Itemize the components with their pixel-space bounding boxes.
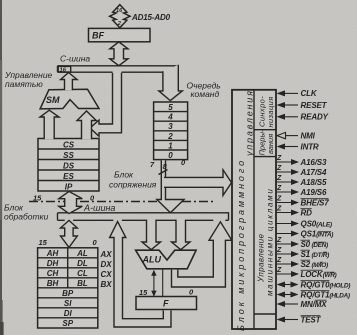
svg-text:Блок микропрограммного: Блок микропрограммного [236, 158, 246, 331]
segment register names [63, 141, 75, 192]
svg-text:Блок: Блок [114, 170, 134, 180]
width slash 8 [159, 170, 168, 175]
svg-text:NMI: NMI [301, 131, 316, 140]
wire queue to microprogram control (hollow arrow right) [164, 170, 232, 196]
pin TEST [277, 315, 322, 324]
svg-text:DX: DX [101, 260, 113, 269]
bus AD15-AD0 bidirectional symbol [110, 5, 130, 28]
pin A19/S6 [276, 185, 327, 197]
svg-text:QS0(ALE): QS0(ALE) [301, 219, 332, 228]
svg-text:BF: BF [92, 31, 104, 41]
svg-text:SS: SS [63, 151, 74, 160]
svg-text:С-шина: С-шина [60, 54, 90, 64]
svg-text:машинными циклами: машинными циклами [266, 188, 275, 296]
pin MN/MX [277, 300, 328, 309]
wire ALU output to A-bus feedback (hollow bus, arrow up) [172, 222, 232, 287]
svg-text:BX: BX [101, 280, 113, 289]
svg-text:READY: READY [301, 113, 329, 122]
svg-text:15: 15 [33, 193, 42, 202]
svg-text:RD: RD [301, 208, 313, 217]
svg-text:обработки: обработки [4, 212, 49, 222]
svg-text:INTR: INTR [301, 142, 319, 151]
svg-text:TEST: TEST [301, 315, 322, 324]
svg-text:AH: AH [46, 249, 59, 258]
svg-text:16: 16 [60, 68, 67, 74]
svg-text:DH: DH [47, 259, 59, 268]
svg-text:SI: SI [64, 299, 72, 308]
pin RD [276, 206, 312, 218]
microprogram control unit block [232, 90, 276, 329]
wire F to A-bus loop (hollow bus, arrow up) [110, 222, 171, 327]
svg-text:3: 3 [168, 122, 173, 131]
svg-text:CH: CH [47, 269, 59, 278]
svg-text:DI: DI [64, 309, 73, 318]
svg-text:IP: IP [65, 183, 73, 192]
pin LOCK(WR) [276, 267, 337, 279]
svg-text:сопряжения: сопряжения [109, 180, 157, 190]
svg-text:Z: Z [276, 237, 282, 244]
scan corner smudge [0, 300, 3, 335]
wire C-bus to queue (hollow arrow down) [159, 65, 183, 101]
svg-text:Z: Z [276, 206, 282, 213]
pin BHE/S7 [276, 196, 329, 208]
svg-text:А-шина: А-шина [83, 203, 115, 213]
svg-text:QS1(INTA): QS1(INTA) [301, 229, 334, 238]
svg-text:CLK: CLK [301, 89, 318, 98]
pin RQ/GT1(HLDA) [277, 290, 350, 299]
pin A16/S3 [276, 155, 327, 167]
svg-text:BL: BL [77, 279, 88, 288]
svg-text:команд: команд [191, 89, 220, 99]
C-bus band [58, 66, 179, 72]
svg-text:CX: CX [101, 270, 113, 279]
svg-text:CL: CL [77, 269, 88, 278]
wire A-bus down to ALU left latch (hollow arrow) [142, 220, 161, 250]
svg-text:15: 15 [139, 288, 148, 297]
svg-text:SM: SM [46, 95, 60, 105]
svg-text:Z: Z [276, 196, 282, 203]
pin QS0(ALE) [277, 219, 332, 228]
wire ALU to F [162, 270, 164, 297]
pin A17/S4 [276, 165, 327, 177]
svg-text:Z: Z [276, 267, 282, 274]
svg-text:DL: DL [77, 259, 88, 268]
svg-text:S1 (DT/R): S1 (DT/R) [301, 250, 330, 259]
svg-text:Управление: Управление [257, 233, 266, 283]
svg-text:Z: Z [276, 175, 282, 182]
wire segment regs to SM left input (hollow arrow up) [40, 110, 59, 139]
svg-text:BH: BH [47, 279, 59, 288]
pin INTR [277, 142, 319, 151]
svg-text:DS: DS [63, 162, 75, 171]
svg-text:A18/S5: A18/S5 [300, 178, 327, 187]
svg-text:вания: вания [266, 134, 275, 154]
general register names [46, 249, 88, 328]
pin S0(DEN) [276, 237, 328, 249]
wire BF to C-bus (bidirectional hollow arrow) [110, 42, 128, 66]
svg-text:низация: низация [266, 96, 275, 127]
svg-text:RQ/GT1(HLDA): RQ/GT1(HLDA) [301, 290, 350, 299]
svg-text:Z: Z [276, 185, 282, 192]
segment register block CS SS DS ES IP [38, 139, 99, 192]
svg-text:AX: AX [100, 250, 113, 259]
16 width box on C-bus [58, 66, 70, 72]
wire C-bus to SM input (hollow bus, arrow left) [90, 73, 122, 137]
svg-text:ALU: ALU [142, 255, 162, 265]
pin READY [277, 113, 329, 122]
svg-text:15: 15 [39, 238, 48, 247]
svg-text:RESET: RESET [301, 101, 328, 110]
svg-text:ES: ES [63, 172, 74, 181]
svg-text:A17/S4: A17/S4 [300, 168, 327, 177]
svg-text:5: 5 [168, 103, 173, 112]
svg-text:F: F [163, 299, 169, 309]
queue byte numbers [167, 103, 173, 160]
svg-text:Z: Z [276, 257, 282, 264]
vertical texts of control block [236, 89, 255, 331]
wire segment regs to SM right input (hollow arrow up) [77, 111, 96, 139]
svg-text:памятью: памятью [5, 79, 43, 89]
pin RQ/GT0(HOLD) [277, 280, 351, 289]
svg-text:CS: CS [63, 141, 75, 150]
svg-text:Z: Z [276, 247, 282, 254]
adder SM [40, 89, 99, 109]
svg-text:S0 (DEN): S0 (DEN) [301, 240, 328, 249]
svg-text:A16/S3: A16/S3 [300, 158, 327, 167]
svg-text:MN/MX: MN/MX [301, 300, 328, 309]
pin CLK [277, 89, 318, 98]
svg-text:AL: AL [76, 249, 88, 258]
pin RESET [277, 101, 328, 110]
wire queue to A-bus (hollow arrow down, 8 bits) [157, 160, 184, 213]
buffer BF [89, 28, 151, 41]
wire SM to C-bus (hollow arrow up, 16 bits) [61, 73, 78, 91]
svg-text:4: 4 [167, 113, 173, 122]
svg-text:Z: Z [276, 155, 282, 162]
svg-text:1: 1 [168, 141, 173, 150]
svg-text:S2 (M/IO): S2 (M/IO) [301, 260, 328, 269]
wire A-bus down to ALU right latch (hollow arrow) [172, 220, 191, 250]
wire segment regs to A-bus (bidirectional hollow arrow) [59, 191, 83, 213]
pin QS1(INTA) [277, 229, 334, 238]
scan left border [0, 0, 2, 335]
instruction queue (6 byte registers) [154, 102, 188, 160]
svg-text:BHE/S7: BHE/S7 [301, 198, 330, 207]
svg-text:Z: Z [276, 165, 282, 172]
wire A-bus to general registers (bidirectional hollow arrow) [61, 220, 78, 247]
EU/BIU dash-dot boundary [29, 201, 213, 203]
register pair labels [100, 250, 113, 289]
svg-text:BP: BP [62, 289, 74, 298]
A-bus band [58, 213, 229, 221]
svg-text:RQ/GT0(HOLD): RQ/GT0(HOLD) [301, 280, 351, 289]
flags register F [136, 297, 197, 310]
svg-text:2: 2 [167, 132, 173, 141]
wire ALU-F thin bidirectional arrow [151, 270, 163, 297]
svg-text:AD15-AD0: AD15-AD0 [131, 13, 171, 22]
svg-text:A19/S6: A19/S6 [300, 188, 327, 197]
svg-text:16: 16 [116, 8, 123, 14]
svg-text:LOCK(WR): LOCK(WR) [301, 270, 337, 279]
svg-text:SP: SP [62, 319, 73, 328]
pin NMI [277, 131, 316, 140]
op-amp ALU symbol [136, 250, 197, 269]
svg-text:0: 0 [168, 151, 173, 160]
pin S2(M/IO) [276, 257, 328, 269]
pin A18/S5 [276, 175, 327, 187]
pin S1(DT/R) [276, 247, 329, 259]
svg-text:управления: управления [245, 89, 255, 157]
general register block [38, 248, 98, 328]
